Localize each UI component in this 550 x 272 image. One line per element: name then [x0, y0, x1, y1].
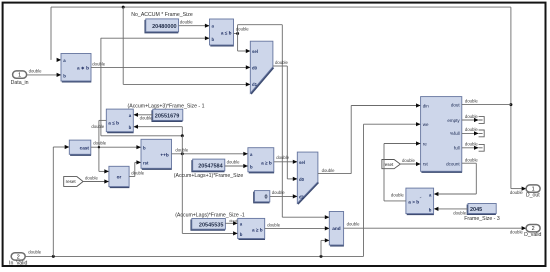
- svg-text:re: re: [423, 141, 427, 146]
- svg-text:d1: d1: [252, 82, 258, 87]
- svg-text:double: double: [453, 211, 467, 216]
- wire C6 to cmp5 b: [434, 207, 468, 216]
- svg-text:2: 2: [532, 226, 535, 232]
- svg-text:double: double: [91, 124, 105, 129]
- svg-text:double: double: [465, 114, 479, 119]
- svg-text:2045: 2045: [470, 207, 482, 213]
- svg-text:double: double: [227, 160, 241, 165]
- constant C6 2045: [468, 204, 497, 215]
- constant C4 20545535: [191, 219, 225, 230]
- svg-text:1: 1: [532, 187, 535, 193]
- svg-text:double: double: [510, 230, 524, 235]
- svg-text:b: b: [429, 208, 432, 213]
- wire cmp3 out to switch2 sel: [274, 155, 298, 164]
- svg-text:a ≥ b: a ≥ b: [261, 161, 272, 166]
- svg-text:double: double: [175, 147, 189, 152]
- constant C2 20551679: [152, 109, 183, 121]
- input port Data_in: [11, 71, 29, 86]
- wire reset to fifo rst: [400, 158, 420, 166]
- svg-text:double: double: [276, 155, 290, 160]
- svg-text:sel: sel: [252, 49, 258, 54]
- svg-text:(Accum+Lags+3)*Frame_Size - 1: (Accum+Lags+3)*Frame_Size - 1: [128, 104, 205, 110]
- svg-text:double: double: [510, 190, 524, 195]
- wire reset to or in2: [83, 176, 109, 184]
- svg-text:double: double: [275, 60, 289, 65]
- svg-text:dout: dout: [451, 102, 461, 107]
- svg-text:double: double: [85, 176, 99, 181]
- wire cast out to counter b: [91, 140, 141, 149]
- switch SW1: [250, 41, 273, 94]
- wire C4 to cmp4 a: [225, 218, 242, 225]
- svg-text:double: double: [465, 127, 479, 132]
- svg-text:a ≥ b: a ≥ b: [252, 227, 263, 232]
- wire counter value to cmp1 b: [101, 36, 210, 136]
- wire fifo full to terminator T3: [462, 142, 484, 152]
- output port D_out: [510, 185, 540, 199]
- adder U1 a+b: [61, 54, 91, 82]
- svg-text:full: full: [454, 146, 460, 151]
- svg-text:a ≤ b: a ≤ b: [108, 121, 119, 126]
- svg-text:dcount: dcount: [446, 161, 460, 166]
- svg-text:double: double: [236, 27, 250, 32]
- svg-text:double: double: [29, 68, 43, 73]
- svg-text:sel: sel: [299, 160, 305, 165]
- wire or out to counter rst: [129, 160, 145, 176]
- wire counter value to cmp2 b: [133, 125, 183, 138]
- svg-text:b: b: [212, 37, 215, 42]
- comparator U2 a<=b: [210, 19, 234, 46]
- comparator U7 a>=b: [248, 148, 274, 173]
- wire counter out trunk: [172, 136, 248, 236]
- svg-text:(Accum+Lags+1)*Frame_Size: (Accum+Lags+1)*Frame_Size: [174, 173, 244, 179]
- svg-text:double: double: [402, 158, 416, 163]
- wire C1 to cmp1 a: [179, 20, 210, 28]
- svg-text:double: double: [465, 157, 479, 162]
- wire and out to D_valid: [344, 222, 527, 231]
- svg-text:double: double: [391, 193, 405, 198]
- reset tag TG2: [382, 160, 400, 169]
- wire C3 to cmp3 b: [225, 160, 248, 168]
- svg-text:a > b: a > b: [408, 199, 419, 204]
- constant C5 0: [254, 191, 270, 203]
- svg-text:empty: empty: [447, 118, 460, 123]
- svg-text:d0: d0: [299, 177, 305, 182]
- svg-text:double: double: [272, 190, 286, 195]
- svg-text:double: double: [93, 140, 107, 145]
- svg-text:b: b: [143, 146, 146, 151]
- svg-text:and: and: [332, 226, 340, 231]
- cast block U4: [69, 140, 91, 155]
- comparator U8 a>=b lower: [238, 218, 265, 239]
- svg-text:reset: reset: [66, 179, 77, 184]
- constant C1 20480000: [145, 19, 178, 33]
- svg-text:double: double: [347, 222, 361, 227]
- wire In_Valid trunk: [25, 122, 420, 258]
- svg-text:double: double: [140, 116, 154, 121]
- svg-text:No_ACCUM * Frame_Size: No_ACCUM * Frame_Size: [131, 12, 193, 18]
- wire fifo dout: [462, 99, 511, 105]
- svg-text:20545535: 20545535: [199, 222, 223, 228]
- wire cmp5 out to fifo re: [384, 141, 421, 201]
- svg-text:double: double: [267, 222, 281, 227]
- svg-text:20547584: 20547584: [198, 163, 223, 169]
- and gate U9: [329, 212, 344, 246]
- svg-text:double: double: [322, 168, 336, 173]
- svg-text:20551679: 20551679: [155, 113, 179, 119]
- switch SW2: [297, 152, 318, 204]
- output port D_valid: [510, 225, 542, 239]
- svg-text:double: double: [92, 61, 106, 66]
- svg-text:double: double: [465, 142, 479, 147]
- svg-text:rst: rst: [423, 161, 429, 166]
- wire fifo empty to terminator T1: [462, 114, 484, 124]
- svg-text:din: din: [423, 103, 430, 108]
- svg-text:0: 0: [265, 195, 268, 201]
- svg-text:b: b: [250, 164, 253, 169]
- svg-text:b: b: [240, 232, 243, 237]
- wire switch2 out to fifo din: [318, 103, 421, 173]
- constant C3 20547584: [192, 159, 225, 171]
- wire C2 to cmp2 a: [133, 113, 153, 121]
- wire adder out to switch1 d0: [91, 61, 250, 69]
- wire cmp1 out to switch1 sel and and1: [234, 25, 330, 220]
- svg-text:double: double: [465, 99, 479, 104]
- comparator U11 a>b mirrored: [406, 188, 434, 214]
- svg-text:In_Valid: In_Valid: [9, 260, 27, 266]
- wire Data_in to adder: [27, 68, 61, 77]
- svg-text:D_valid: D_valid: [524, 232, 541, 238]
- svg-text:D_out: D_out: [526, 193, 540, 199]
- svg-text:d1: d1: [299, 195, 305, 200]
- svg-text:we: we: [423, 122, 429, 127]
- svg-text:reset: reset: [383, 162, 394, 167]
- svg-text:b: b: [129, 125, 132, 130]
- svg-text:a ∗ b: a ∗ b: [77, 66, 89, 71]
- counter U6 ++b: [141, 139, 172, 169]
- svg-text:%full: %full: [450, 131, 460, 136]
- svg-text:cast: cast: [80, 146, 90, 151]
- wire dout feedback top loop: [51, 6, 526, 191]
- wire C5 to switch2 d1: [270, 190, 298, 198]
- svg-text:Frame_Size - 3: Frame_Size - 3: [464, 216, 500, 222]
- svg-text:1: 1: [18, 73, 21, 79]
- svg-text:double: double: [131, 171, 145, 176]
- fifo U10: [421, 97, 463, 172]
- input port In_Valid: [9, 253, 27, 267]
- comparator U3 a<=b mirrored: [106, 109, 133, 132]
- reset tag TG1: [64, 177, 83, 187]
- svg-text:20480000: 20480000: [152, 24, 176, 30]
- svg-text:b: b: [63, 74, 66, 79]
- svg-text:a ≤ b: a ≤ b: [221, 31, 232, 36]
- wire switch1 out to switch2 d0: [273, 60, 298, 181]
- svg-text:or: or: [117, 175, 122, 180]
- svg-text:double: double: [28, 249, 42, 254]
- svg-text:double: double: [180, 20, 194, 25]
- svg-text:d0: d0: [252, 65, 258, 70]
- wire cmp4 out to and in2: [265, 222, 330, 230]
- wire cmp2 out to or in1: [91, 120, 109, 173]
- or gate U5: [109, 166, 129, 187]
- wire fifo %full to terminator T2: [462, 127, 484, 137]
- svg-text:rst: rst: [143, 161, 149, 166]
- svg-text:++b: ++b: [160, 152, 168, 157]
- svg-text:Data_in: Data_in: [11, 80, 29, 86]
- wire fifo dcount to cmp5 a: [434, 157, 479, 196]
